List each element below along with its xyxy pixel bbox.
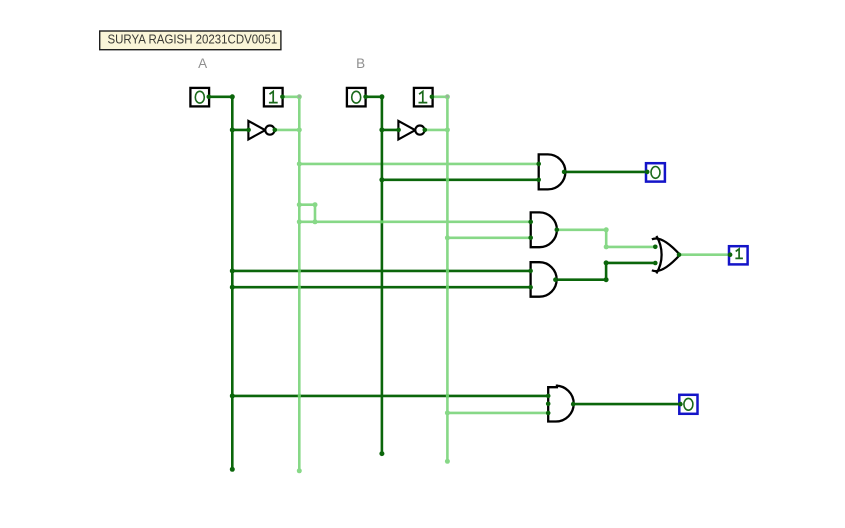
svg-text:A: A [198, 56, 207, 71]
svg-text:SURYA RAGISH 20231CDV0051: SURYA RAGISH 20231CDV0051 [108, 32, 278, 47]
svg-text:B: B [356, 56, 365, 71]
